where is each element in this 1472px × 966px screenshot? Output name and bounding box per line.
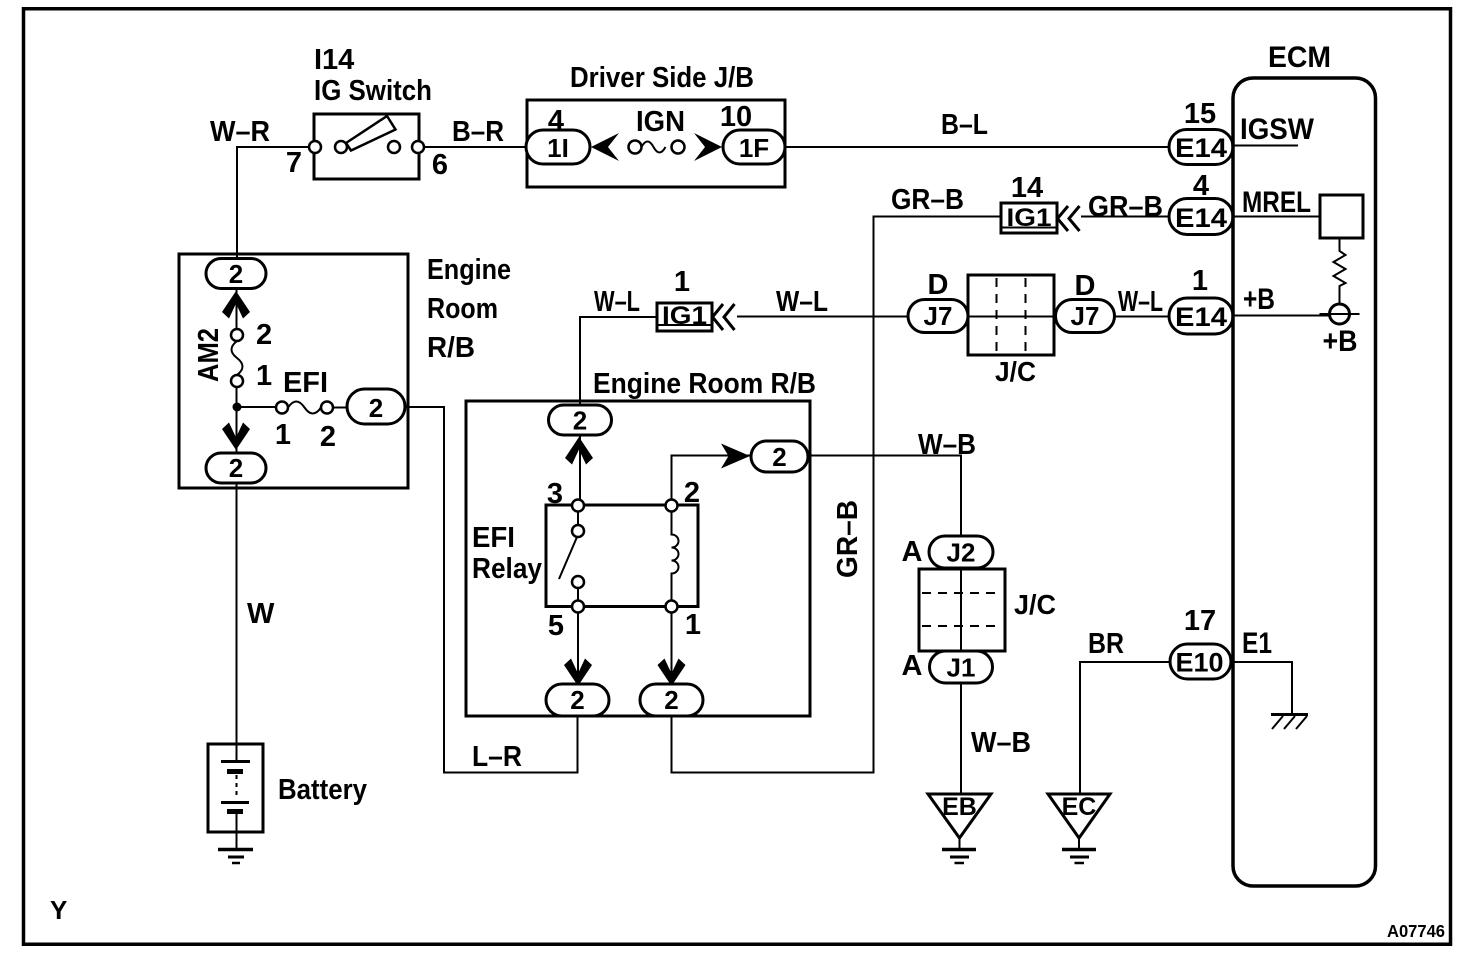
relay coil square at MREL — [1320, 195, 1363, 238]
svg-text:D: D — [1075, 270, 1096, 302]
svg-text:14: 14 — [1011, 172, 1043, 204]
svg-text:2: 2 — [256, 319, 272, 351]
connector oval E10 pin 17 — [1170, 644, 1231, 679]
connector oval 2 mid R/B top — [549, 405, 612, 435]
svg-text:J7: J7 — [924, 301, 953, 331]
wire GR-B segment E14 to arrows — [1081, 216, 1169, 218]
wire L-R net EFI fuse to relay pin 5 oval — [405, 407, 578, 773]
wire through +B node — [1320, 313, 1360, 315]
svg-text:2: 2 — [684, 477, 700, 509]
svg-text:Y: Y — [50, 895, 67, 925]
relay block Engine Room R/B mid box — [466, 401, 810, 716]
wire IGSW pin stub — [1233, 145, 1298, 147]
wire relay pin 1 to oval — [671, 612, 673, 684]
svg-text:4: 4 — [1193, 170, 1209, 202]
connector oval E14 pin 4 — [1169, 199, 1233, 235]
svg-text:2: 2 — [320, 421, 336, 453]
svg-text:1: 1 — [256, 360, 272, 392]
svg-text:R/B: R/B — [427, 332, 475, 364]
junction connector J/C box upper — [968, 275, 1054, 355]
svg-text:MREL: MREL — [1242, 186, 1311, 219]
svg-text:EFI: EFI — [283, 367, 328, 399]
svg-text:BR: BR — [1088, 628, 1124, 660]
wire relay pin 5 to oval — [577, 612, 579, 684]
svg-text:Relay: Relay — [472, 553, 542, 585]
svg-text:Room: Room — [427, 293, 498, 325]
connector oval 2 W-B output — [751, 441, 808, 472]
svg-text:I14: I14 — [314, 44, 354, 76]
svg-text:ECM: ECM — [1268, 41, 1331, 74]
connector IG1 box pin 1 — [657, 303, 712, 331]
svg-text:IGSW: IGSW — [1240, 113, 1315, 146]
connector oval 1I — [526, 130, 590, 164]
svg-text:1I: 1I — [547, 133, 569, 163]
svg-text:A: A — [902, 536, 923, 568]
svg-text:GR–B: GR–B — [891, 184, 964, 216]
pin circles IG switch — [309, 141, 321, 153]
svg-text:Driver Side J/B: Driver Side J/B — [570, 62, 754, 94]
svg-text:EB: EB — [942, 793, 977, 821]
connector oval 2 under relay pin 1 — [640, 684, 703, 716]
svg-text:AM2: AM2 — [193, 328, 225, 382]
connector IG1 box pin 14 — [1001, 203, 1057, 233]
svg-text:L–R: L–R — [472, 741, 522, 773]
wire MREL pin stub — [1233, 216, 1320, 218]
svg-text:J1: J1 — [947, 653, 976, 683]
svg-text:2: 2 — [570, 685, 584, 715]
battery internals — [236, 744, 238, 760]
wire W-B net to EB ground — [808, 456, 961, 795]
svg-text:A: A — [902, 650, 923, 682]
svg-text:2: 2 — [229, 453, 243, 483]
svg-text:+B: +B — [1323, 325, 1358, 358]
svg-text:3: 3 — [547, 478, 563, 510]
junction connector J/C box lower — [919, 569, 1005, 651]
svg-text:17: 17 — [1184, 605, 1216, 637]
arrow down relay pin 1 — [658, 659, 686, 687]
connector arrows at IG1 pin 1 — [713, 304, 735, 330]
svg-text:2: 2 — [369, 393, 383, 423]
junction block Driver Side J/B box — [527, 100, 785, 187]
svg-text:Engine Room R/B: Engine Room R/B — [593, 368, 816, 400]
svg-text:A07746: A07746 — [1387, 921, 1445, 941]
ground below battery — [236, 832, 238, 848]
svg-text:5: 5 — [548, 610, 564, 642]
svg-text:W: W — [247, 598, 275, 630]
svg-text:Battery: Battery — [278, 774, 367, 806]
svg-text:2: 2 — [229, 259, 243, 289]
switch I14 IG Switch box — [314, 114, 419, 179]
wire W-L from arrows through J/C to E14 — [737, 316, 1169, 318]
node +B circle — [1330, 304, 1350, 324]
svg-text:W–B: W–B — [918, 429, 976, 461]
relay block Engine Room R/B left box — [179, 254, 408, 488]
arrow down to lower left R/B oval — [222, 423, 250, 451]
connector oval 2 under relay pin 5 — [546, 684, 609, 716]
svg-text:2: 2 — [772, 442, 786, 472]
svg-text:E1: E1 — [1242, 627, 1272, 660]
fuse EFI terminals — [276, 402, 288, 414]
wire BR net — [1080, 662, 1170, 794]
connector oval 1F — [723, 130, 785, 164]
svg-text:EC: EC — [1062, 793, 1097, 821]
connector oval J2 — [929, 536, 993, 568]
svg-text:IGN: IGN — [636, 106, 685, 138]
wire B-L — [785, 146, 1169, 148]
svg-text:E14: E14 — [1175, 203, 1227, 233]
svg-text:IG1: IG1 — [662, 302, 707, 330]
svg-text:7: 7 — [286, 147, 302, 179]
connector oval 2 left R/B top — [206, 259, 266, 289]
svg-text:J/C: J/C — [995, 356, 1036, 387]
svg-text:W–L: W–L — [594, 286, 640, 318]
relay switch contact circles — [572, 525, 584, 537]
relay pin circles — [572, 500, 584, 512]
fuse EFI wave — [288, 402, 321, 414]
arrow right in J/B — [694, 133, 722, 161]
wire GR-B net from IG1 down and around to EFI relay pin 1 — [672, 217, 1002, 773]
svg-text:E14: E14 — [1175, 133, 1227, 163]
node junction dot AM2/EFI — [233, 403, 242, 412]
svg-text:+B: +B — [1243, 283, 1275, 316]
wire EFI fuse to oval — [333, 407, 347, 409]
wire mid oval to relay pin 3 — [579, 435, 581, 500]
svg-text:Engine: Engine — [427, 254, 511, 286]
connector oval E14 pin 1 — [1169, 298, 1233, 334]
connector oval E14 pin 15 — [1169, 130, 1233, 165]
ECM box — [1233, 78, 1376, 886]
wire B-R — [419, 146, 527, 148]
svg-text:J/C: J/C — [1014, 589, 1056, 620]
wire relay pin 2 to W-B oval — [672, 456, 752, 501]
svg-text:1: 1 — [275, 419, 291, 451]
switch I14 IG Switch lever — [346, 116, 396, 151]
fuse AM2 wave — [232, 341, 243, 375]
resistor in ECM below MREL square — [1334, 238, 1346, 304]
connector oval 2 left R/B bottom — [206, 453, 266, 483]
connector arrows at IG1 pin 14 — [1058, 206, 1080, 231]
svg-text:2: 2 — [573, 406, 587, 436]
connector oval J7 left — [908, 300, 968, 333]
svg-text:W–R: W–R — [210, 116, 270, 148]
ground EC triangle — [1048, 794, 1110, 838]
wire W-L from IG1 to Engine Room R/B oval — [580, 317, 657, 405]
svg-text:1F: 1F — [739, 133, 769, 163]
wire W-R — [237, 147, 314, 258]
svg-text:6: 6 — [432, 149, 448, 181]
wire EFI fuse feed — [237, 406, 276, 408]
svg-text:EFI: EFI — [472, 522, 515, 554]
svg-text:E10: E10 — [1176, 648, 1224, 678]
svg-text:1: 1 — [1192, 265, 1208, 297]
wire AM2 fuse top segment — [236, 288, 238, 329]
arrow left in J/B — [591, 133, 619, 161]
relay EFI Relay box — [546, 505, 698, 607]
svg-text:GR–B: GR–B — [1088, 191, 1163, 223]
wire W battery feed — [236, 483, 238, 744]
svg-text:W–L: W–L — [1118, 286, 1163, 318]
relay coil — [672, 512, 679, 600]
arrow down relay pin 5 — [564, 659, 592, 687]
svg-text:IG1: IG1 — [1007, 204, 1052, 232]
svg-text:W–L: W–L — [776, 286, 828, 318]
ground chassis E1 — [1271, 713, 1308, 716]
arrow up into left R/B oval — [222, 291, 250, 319]
arrow right into W-B oval — [721, 444, 750, 469]
svg-text:J7: J7 — [1071, 301, 1100, 331]
wire AM2 fuse bottom segment to lower oval — [236, 387, 238, 453]
relay switch contact lever — [559, 511, 578, 601]
ground EB triangle — [928, 794, 991, 838]
wire E1 to chassis ground — [1231, 662, 1292, 714]
wire +B pin stub — [1233, 315, 1330, 317]
svg-text:IG Switch: IG Switch — [314, 75, 432, 107]
fuse AM2 terminals — [231, 329, 243, 341]
svg-text:10: 10 — [720, 101, 752, 133]
svg-text:W–B: W–B — [971, 727, 1031, 759]
svg-text:B–L: B–L — [941, 109, 988, 141]
fuse IGN terminals — [629, 141, 642, 154]
svg-text:D: D — [928, 269, 949, 301]
battery box — [208, 744, 263, 832]
svg-text:15: 15 — [1184, 98, 1216, 130]
svg-text:1: 1 — [674, 266, 690, 298]
svg-text:B–R: B–R — [452, 116, 504, 148]
connector oval J1 — [930, 651, 993, 683]
svg-text:GR–B: GR–B — [832, 500, 864, 578]
svg-text:J2: J2 — [947, 538, 976, 568]
connector oval J7 right — [1056, 300, 1115, 333]
svg-text:1: 1 — [685, 609, 701, 641]
svg-text:E14: E14 — [1175, 302, 1227, 332]
fuse IGN wave — [642, 142, 666, 153]
svg-text:2: 2 — [664, 685, 678, 715]
arrow up into mid R/B oval — [565, 437, 593, 465]
connector oval 2 EFI fuse output — [347, 389, 405, 424]
